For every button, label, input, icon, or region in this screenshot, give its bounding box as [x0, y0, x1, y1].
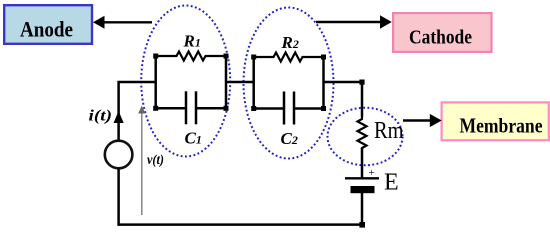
wire: battery to bottom wire — [361, 193, 364, 226]
battery E bottom plate — [351, 186, 375, 193]
dotted ellipse around R1C1 (anode loop) — [141, 6, 230, 157]
svg-text:Cathode: Cathode — [409, 27, 472, 49]
arrow to Membrane — [403, 114, 442, 127]
block2: right vertical wire — [322, 57, 325, 109]
arrow to Anode — [93, 16, 152, 29]
node at top of right branch — [359, 80, 364, 85]
voltage arrow v(t) — [138, 106, 145, 216]
wire: block2 to right vertical — [324, 81, 363, 84]
arrowhead i(t) on left wire — [114, 111, 124, 123]
resistor R1 — [156, 52, 226, 61]
Membrane label box — [442, 102, 549, 140]
dotted ellipse around Rm (membrane loop) — [328, 108, 403, 166]
Anode label box — [4, 5, 92, 44]
wire: Rm to battery — [361, 148, 364, 178]
Cathode label box — [393, 13, 491, 52]
svg-text:Membrane: Membrane — [460, 114, 543, 138]
dotted ellipse around R2C2 (cathode loop) — [244, 8, 334, 159]
svg-text:R1: R1 — [183, 32, 201, 51]
node squares block1 corners — [153, 54, 228, 111]
svg-text:E: E — [384, 169, 399, 195]
svg-text:C2: C2 — [281, 129, 298, 148]
wire: between block1 and block2 — [226, 81, 254, 84]
svg-text:i(t): i(t) — [89, 108, 113, 125]
block2: left vertical wire — [252, 57, 255, 109]
svg-text:R2: R2 — [281, 33, 299, 52]
arrow to Cathode — [316, 15, 392, 28]
resistor Rm (vertical) — [358, 117, 367, 150]
wire: right vertical down to Rm — [361, 82, 364, 117]
capacitor C2 — [254, 92, 324, 125]
wire: bottom horizontal — [118, 223, 363, 226]
block1: left vertical wire — [154, 56, 157, 108]
svg-text:v(t): v(t) — [147, 152, 164, 167]
wire: left vertical below current source — [117, 168, 120, 225]
wire: left vertical above current source — [117, 81, 120, 141]
block1: right vertical wire — [225, 56, 228, 108]
svg-text:Anode: Anode — [20, 16, 73, 41]
resistor R2 — [254, 53, 324, 62]
battery E top plate — [345, 177, 379, 179]
capacitor C1 — [156, 91, 226, 124]
node squares block2 corners — [251, 55, 326, 112]
current source I1 — [105, 141, 133, 169]
wire: top-left horizontal from source to block1 — [118, 81, 157, 84]
node at bottom right junction — [359, 222, 365, 228]
svg-text:Rm: Rm — [374, 118, 404, 144]
svg-text:C1: C1 — [185, 129, 202, 148]
